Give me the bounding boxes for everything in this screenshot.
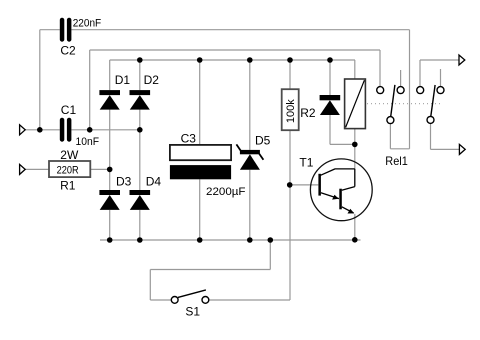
input terminal 1 bbox=[20, 125, 26, 135]
wire bbox=[109, 210, 111, 240]
output terminal top bbox=[459, 55, 465, 65]
svg-text:D2: D2 bbox=[144, 73, 160, 87]
node: rail D2 bbox=[137, 57, 143, 63]
svg-text:Rel1: Rel1 bbox=[385, 154, 408, 168]
node: rail D6 bbox=[327, 57, 333, 63]
svg-text:2W: 2W bbox=[60, 148, 79, 162]
wire bbox=[139, 210, 141, 240]
node: C1 output bbox=[87, 127, 93, 133]
relay blade 2 bbox=[431, 85, 435, 116]
input terminal 2 bbox=[20, 164, 26, 174]
relay contact pole 2 bbox=[427, 116, 434, 123]
node: D2/D4 AC bbox=[137, 127, 143, 133]
diode D2 bbox=[130, 90, 151, 110]
wire bbox=[199, 179, 201, 240]
diode D4 bbox=[130, 190, 151, 210]
relay coil Rel1 bbox=[345, 79, 366, 129]
svg-text:T1: T1 bbox=[299, 155, 313, 169]
svg-text:C3: C3 bbox=[181, 132, 197, 146]
svg-text:100k: 100k bbox=[285, 99, 297, 123]
wire bbox=[25, 129, 60, 131]
dotted linkage line bbox=[367, 103, 440, 105]
wire bbox=[354, 129, 356, 145]
diode D3 bbox=[99, 190, 120, 210]
wire bbox=[150, 269, 270, 271]
wire bbox=[290, 184, 319, 186]
resistor R1 bbox=[49, 161, 90, 177]
wire bbox=[420, 59, 459, 61]
wire bbox=[40, 29, 60, 31]
svg-text:S1: S1 bbox=[185, 304, 200, 318]
node: input junction bbox=[37, 127, 43, 133]
wire bbox=[209, 299, 290, 301]
wire bbox=[109, 60, 111, 90]
relay contact fixed 2a bbox=[417, 87, 424, 94]
svg-text:R2: R2 bbox=[300, 106, 316, 120]
zener diode D5 bbox=[236, 144, 263, 169]
node: gnd D4 bbox=[137, 237, 143, 243]
wire bbox=[390, 148, 409, 150]
node: gnd C3 bbox=[197, 237, 203, 243]
wire bbox=[149, 270, 151, 301]
wire bbox=[430, 123, 432, 149]
svg-text:D5: D5 bbox=[255, 134, 271, 148]
node: gnd D3 bbox=[107, 237, 113, 243]
svg-text:C2: C2 bbox=[60, 44, 76, 58]
wire bbox=[110, 59, 355, 61]
wire bbox=[25, 168, 49, 170]
node: gnd S1 bbox=[268, 237, 274, 243]
relay blade 1 bbox=[391, 85, 395, 117]
node: relay bottom bbox=[352, 142, 358, 148]
wire bbox=[150, 299, 171, 301]
svg-text:220R: 220R bbox=[57, 164, 79, 176]
transistor T1 bbox=[310, 159, 372, 221]
wire bbox=[431, 148, 460, 150]
switch S1 bbox=[171, 290, 209, 303]
svg-text:2200µF: 2200µF bbox=[206, 186, 246, 198]
wire bbox=[389, 124, 391, 149]
diode D1 bbox=[99, 90, 120, 110]
wire bbox=[329, 60, 331, 95]
relay contact fixed 1b bbox=[397, 87, 404, 94]
wire bbox=[289, 60, 291, 89]
wire bbox=[90, 168, 109, 170]
wire bbox=[139, 60, 141, 90]
capacitor C1 bbox=[60, 118, 72, 142]
relay contact fixed 1a bbox=[377, 87, 384, 94]
svg-text:10nF: 10nF bbox=[76, 136, 100, 148]
wire bbox=[89, 50, 91, 130]
wire bbox=[39, 30, 41, 130]
svg-text:D1: D1 bbox=[115, 73, 131, 87]
wire bbox=[354, 144, 356, 169]
wire bbox=[100, 239, 361, 241]
resistor R2 bbox=[282, 89, 299, 130]
wire bbox=[249, 170, 251, 240]
wire bbox=[71, 29, 409, 31]
node: T1 base bbox=[287, 182, 293, 188]
wire bbox=[269, 240, 271, 270]
capacitor C2 bbox=[60, 18, 72, 42]
wire bbox=[249, 60, 251, 150]
wire bbox=[379, 50, 381, 87]
wire bbox=[71, 129, 139, 131]
svg-text:D3: D3 bbox=[116, 175, 132, 189]
wire bbox=[109, 110, 111, 190]
node: rail C3 bbox=[197, 57, 203, 63]
node: D1/D3 AC bbox=[107, 167, 113, 173]
wire bbox=[90, 49, 380, 51]
wire bbox=[409, 30, 411, 149]
svg-text:220nF: 220nF bbox=[73, 17, 102, 29]
svg-text:R1: R1 bbox=[60, 179, 76, 193]
node: rail D5 bbox=[247, 57, 253, 63]
output terminal bottom bbox=[459, 144, 465, 154]
wire bbox=[354, 214, 356, 240]
wire bbox=[199, 60, 201, 145]
node: rail R2 bbox=[287, 57, 293, 63]
svg-text:C1: C1 bbox=[61, 103, 77, 117]
svg-text:D4: D4 bbox=[146, 175, 162, 189]
wire bbox=[139, 110, 141, 190]
capacitor C3 bbox=[170, 145, 231, 179]
wire bbox=[330, 143, 355, 145]
wire bbox=[400, 70, 402, 87]
node: gnd T1 emitter bbox=[352, 237, 358, 243]
flyback diode bbox=[320, 95, 341, 115]
wire bbox=[329, 115, 331, 144]
wire bbox=[289, 129, 291, 300]
relay contact pole 1 bbox=[387, 117, 394, 124]
node: gnd D5 bbox=[247, 237, 253, 243]
wire bbox=[440, 69, 442, 87]
wire bbox=[419, 60, 421, 87]
wire bbox=[354, 60, 356, 79]
relay contact fixed 2b bbox=[437, 87, 444, 94]
